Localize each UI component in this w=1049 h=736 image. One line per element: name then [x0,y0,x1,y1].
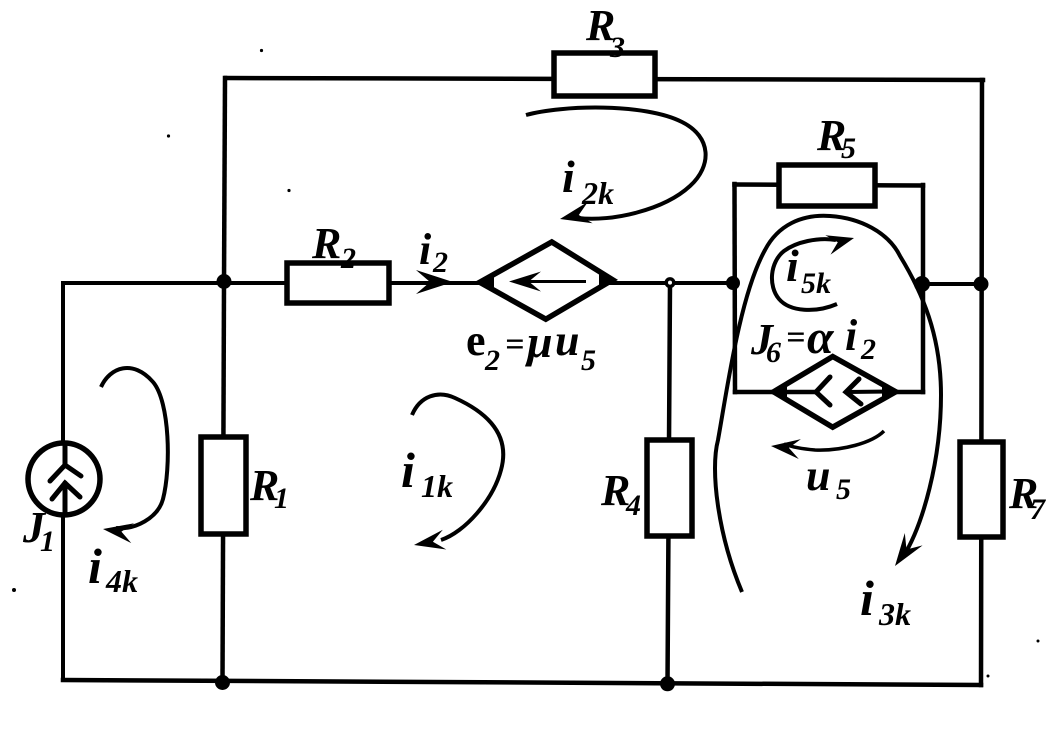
svg-text:R: R [311,219,341,268]
svg-text:5: 5 [581,344,596,377]
wire right vertical [981,80,982,685]
controlled current source J6 (diamond) [774,357,896,428]
loop arrow i2k [526,108,706,219]
svg-text:3: 3 [609,31,625,64]
svg-text:i: i [562,151,575,202]
svg-text:2: 2 [340,242,356,275]
svg-text:u: u [555,316,579,365]
svg-text:1k: 1k [421,468,453,504]
node dot bottom R1 [215,675,230,690]
resistor R4 [647,440,692,536]
arrow u5 [784,431,884,450]
svg-text:α: α [807,311,835,364]
wire middle horizontal left [63,281,735,285]
loop arrow i5k [772,239,837,310]
wire middle horizontal right [922,282,981,286]
svg-text:i: i [419,225,432,274]
node dot bottom R4 [660,676,675,691]
svg-text:1: 1 [274,482,289,515]
resistor R3 [554,53,655,96]
stray scan specks [260,49,263,52]
loop arrow i4k [101,368,168,528]
svg-text:4: 4 [625,489,641,522]
svg-text:5: 5 [841,132,856,165]
resistor R5 [779,165,875,206]
wire J6 horizontal [735,390,923,395]
resistor R1 [201,437,246,534]
wire left-upper vertical [224,78,225,283]
svg-text:2k: 2k [581,175,614,211]
svg-text:i: i [88,538,102,594]
svg-text:e: e [466,316,486,365]
current source J1 [28,443,100,515]
controlled voltage source e2 (diamond) [480,242,613,319]
svg-text:2: 2 [860,333,876,366]
svg-text:4k: 4k [105,563,138,599]
wire sub-circuit top horizontal [735,185,924,186]
svg-text:2: 2 [484,344,500,377]
node ring R4 junction [665,277,676,288]
svg-text:2: 2 [432,246,448,279]
arrow i2 on wire [416,270,453,294]
svg-text:i: i [845,311,858,360]
node dot right [974,277,989,292]
wire R4 branch [668,283,671,684]
svg-text:6: 6 [766,336,781,369]
loop arrow i3k [715,216,941,592]
svg-text:1: 1 [40,525,55,558]
resistor R7 [960,442,1003,537]
resistor R2 [287,263,389,303]
wire sub-circuit right rail [921,185,926,392]
wire sub-circuit left rail [732,184,737,392]
loop arrow i1k [412,395,503,540]
svg-text:i: i [786,240,799,291]
svg-text:5k: 5k [801,267,831,300]
wire bottom horizontal [63,680,981,685]
node dot sub-circuit right [914,276,930,292]
svg-text:5: 5 [836,473,851,506]
svg-text:3k: 3k [878,596,911,632]
wire left vertical [61,283,65,680]
svg-text:μ: μ [525,316,553,367]
svg-text:i: i [860,570,874,626]
node dot sub-circuit left [726,276,740,290]
svg-text:i: i [401,442,415,498]
node dot R2 junction [217,274,232,289]
svg-text:=: = [505,326,524,363]
wire top horizontal [226,78,983,80]
svg-text:=: = [786,319,805,356]
svg-text:u: u [806,451,830,500]
svg-text:7: 7 [1030,493,1046,526]
wire R1 branch [223,283,225,682]
